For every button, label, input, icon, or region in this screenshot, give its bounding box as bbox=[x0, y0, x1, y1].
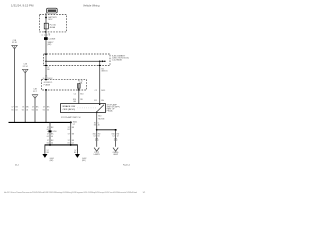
wire bus to splice A bbox=[49, 122, 51, 144]
svg-text:04: 04 bbox=[16, 110, 18, 112]
svg-text:04: 04 bbox=[72, 142, 74, 144]
stoplamp switch box bbox=[61, 104, 106, 113]
svg-text:file:///C:/Users/Owner/Documen: file:///C:/Users/Owner/Documents/2004%20… bbox=[4, 191, 137, 194]
pin marker lower box top bbox=[45, 79, 47, 80]
svg-text:1/31/24, 9:15 PM: 1/31/24, 9:15 PM bbox=[11, 4, 34, 8]
svg-text:45-2: 45-2 bbox=[15, 164, 19, 166]
svg-text:04: 04 bbox=[36, 110, 38, 112]
svg-text:OFF (BOO): OFF (BOO) bbox=[63, 109, 76, 111]
fuse F2.10 bbox=[78, 84, 81, 89]
svg-text:(BK): (BK) bbox=[50, 160, 54, 162]
svg-text:Fig 45-2: Fig 45-2 bbox=[123, 164, 130, 166]
splice S441 dot bbox=[70, 121, 72, 123]
inline connector ticks branch 2 bbox=[114, 137, 117, 139]
wire fuse to switch bbox=[78, 90, 80, 104]
off-page arrow A bbox=[12, 45, 18, 49]
off-page arrow D bbox=[94, 148, 99, 152]
off-page arrow E bbox=[113, 148, 118, 152]
svg-text:G1: G1 bbox=[67, 129, 69, 131]
wire ground pin to bus bbox=[45, 90, 47, 122]
svg-text:C2280B: C2280B bbox=[112, 60, 123, 62]
svg-text:57: 57 bbox=[68, 134, 70, 136]
svg-text:F2.14: F2.14 bbox=[23, 66, 28, 68]
svg-text:F2.30: F2.30 bbox=[12, 42, 17, 44]
ground G402 bbox=[75, 154, 80, 158]
pin marker SJB bottom right bbox=[99, 65, 101, 66]
wire SJB down-left bbox=[45, 61, 47, 79]
svg-text:C4: C4 bbox=[112, 136, 114, 138]
SJB lower dashed box bbox=[42, 80, 87, 90]
node splice S340 bbox=[96, 129, 98, 131]
ground bus 2 bbox=[45, 144, 78, 146]
wire from arrow C bbox=[34, 98, 36, 122]
terminal arrow end bbox=[102, 60, 105, 62]
svg-text:(BK): (BK) bbox=[82, 160, 86, 162]
connector block bbox=[48, 130, 51, 132]
terminal end block bbox=[115, 129, 117, 131]
ground G401 bbox=[42, 154, 47, 158]
svg-text:C2: C2 bbox=[95, 90, 97, 92]
wire from arrow A bbox=[14, 49, 16, 122]
svg-text:C2280E: C2280E bbox=[48, 39, 56, 41]
battery junction box (BJB) dashed box bbox=[40, 15, 67, 32]
svg-text:57: 57 bbox=[32, 107, 34, 109]
connector C2280E bbox=[42, 35, 56, 41]
smart junction box (SJB) dashed box bbox=[44, 54, 110, 66]
svg-text:G1: G1 bbox=[67, 142, 69, 144]
svg-text:GN/OG: GN/OG bbox=[101, 70, 108, 72]
pin marker SJB top bbox=[45, 54, 47, 55]
node bus2 dot B bbox=[70, 144, 72, 146]
wire main feed bbox=[45, 13, 47, 61]
pin 11 marker BJB bottom bbox=[44, 31, 47, 33]
switch blade bbox=[97, 105, 104, 112]
svg-text:(BK): (BK) bbox=[48, 44, 52, 46]
wire switch output bbox=[96, 113, 98, 147]
svg-text:40: 40 bbox=[98, 124, 100, 126]
svg-text:810: 810 bbox=[98, 116, 101, 118]
svg-text:04: 04 bbox=[26, 110, 28, 112]
svg-text:RD/GN: RD/GN bbox=[98, 118, 105, 120]
svg-text:F2.7: F2.7 bbox=[33, 91, 37, 93]
off-page arrow C bbox=[32, 95, 38, 99]
svg-text:06: 06 bbox=[98, 136, 100, 138]
svg-text:57: 57 bbox=[73, 124, 75, 126]
off-page arrow B bbox=[22, 69, 28, 73]
svg-text:04: 04 bbox=[51, 142, 53, 144]
ground bus 1 bbox=[9, 121, 72, 123]
wire from arrow B bbox=[24, 73, 26, 122]
fuse F27 bbox=[44, 23, 48, 29]
svg-text:LAMP: LAMP bbox=[113, 153, 119, 156]
wire SJB down-right bbox=[99, 61, 101, 103]
wire branch 2 bbox=[115, 131, 117, 147]
svg-text:C4: C4 bbox=[93, 136, 95, 138]
inline connector ticks branch 1 bbox=[95, 137, 98, 139]
svg-text:57: 57 bbox=[43, 107, 45, 109]
wire branch horizontal bbox=[97, 129, 116, 131]
svg-text:C2: C2 bbox=[74, 93, 76, 95]
svg-text:G1: G1 bbox=[43, 110, 45, 112]
svg-text:G1: G1 bbox=[47, 136, 49, 138]
wire code labels above bus bbox=[11, 107, 50, 112]
node feed dot bbox=[45, 17, 47, 19]
wire internal bus bbox=[46, 60, 103, 62]
svg-text:PLANE: PLANE bbox=[44, 84, 51, 87]
svg-text:511: 511 bbox=[94, 100, 97, 102]
pin marker SJB bottom left bbox=[45, 65, 47, 66]
svg-text:04: 04 bbox=[51, 136, 53, 138]
wire splice dot to bus2 bbox=[70, 122, 72, 144]
hot-at-all-times banner bbox=[47, 8, 58, 13]
contact dots row bbox=[78, 107, 98, 109]
svg-text:810: 810 bbox=[80, 93, 83, 95]
svg-text:LAMPS: LAMPS bbox=[94, 153, 101, 156]
node bus2 dot A bbox=[49, 144, 51, 146]
svg-text:57: 57 bbox=[12, 107, 14, 109]
node J2 junction dot bbox=[99, 61, 101, 63]
svg-text:57: 57 bbox=[22, 107, 24, 109]
svg-text:PEDAL: PEDAL bbox=[107, 109, 113, 112]
pin marker lower box bottom bbox=[78, 89, 80, 90]
svg-text:G1: G1 bbox=[32, 110, 34, 112]
node ground pin dot bbox=[45, 89, 47, 91]
svg-text:STOPLAMP SWITCH: STOPLAMP SWITCH bbox=[61, 116, 81, 119]
svg-text:BRAKE ON/: BRAKE ON/ bbox=[63, 105, 76, 108]
svg-text:04: 04 bbox=[47, 110, 49, 112]
svg-text:S3: S3 bbox=[94, 124, 96, 126]
svg-text:Vehicle Wiring: Vehicle Wiring bbox=[83, 4, 100, 8]
svg-text:1035: 1035 bbox=[101, 90, 105, 92]
svg-text:G1: G1 bbox=[47, 142, 49, 144]
svg-text:G1: G1 bbox=[22, 110, 24, 112]
svg-text:G1: G1 bbox=[11, 110, 13, 112]
svg-text:12: 12 bbox=[117, 136, 119, 138]
node J1 junction dot bbox=[45, 60, 47, 62]
